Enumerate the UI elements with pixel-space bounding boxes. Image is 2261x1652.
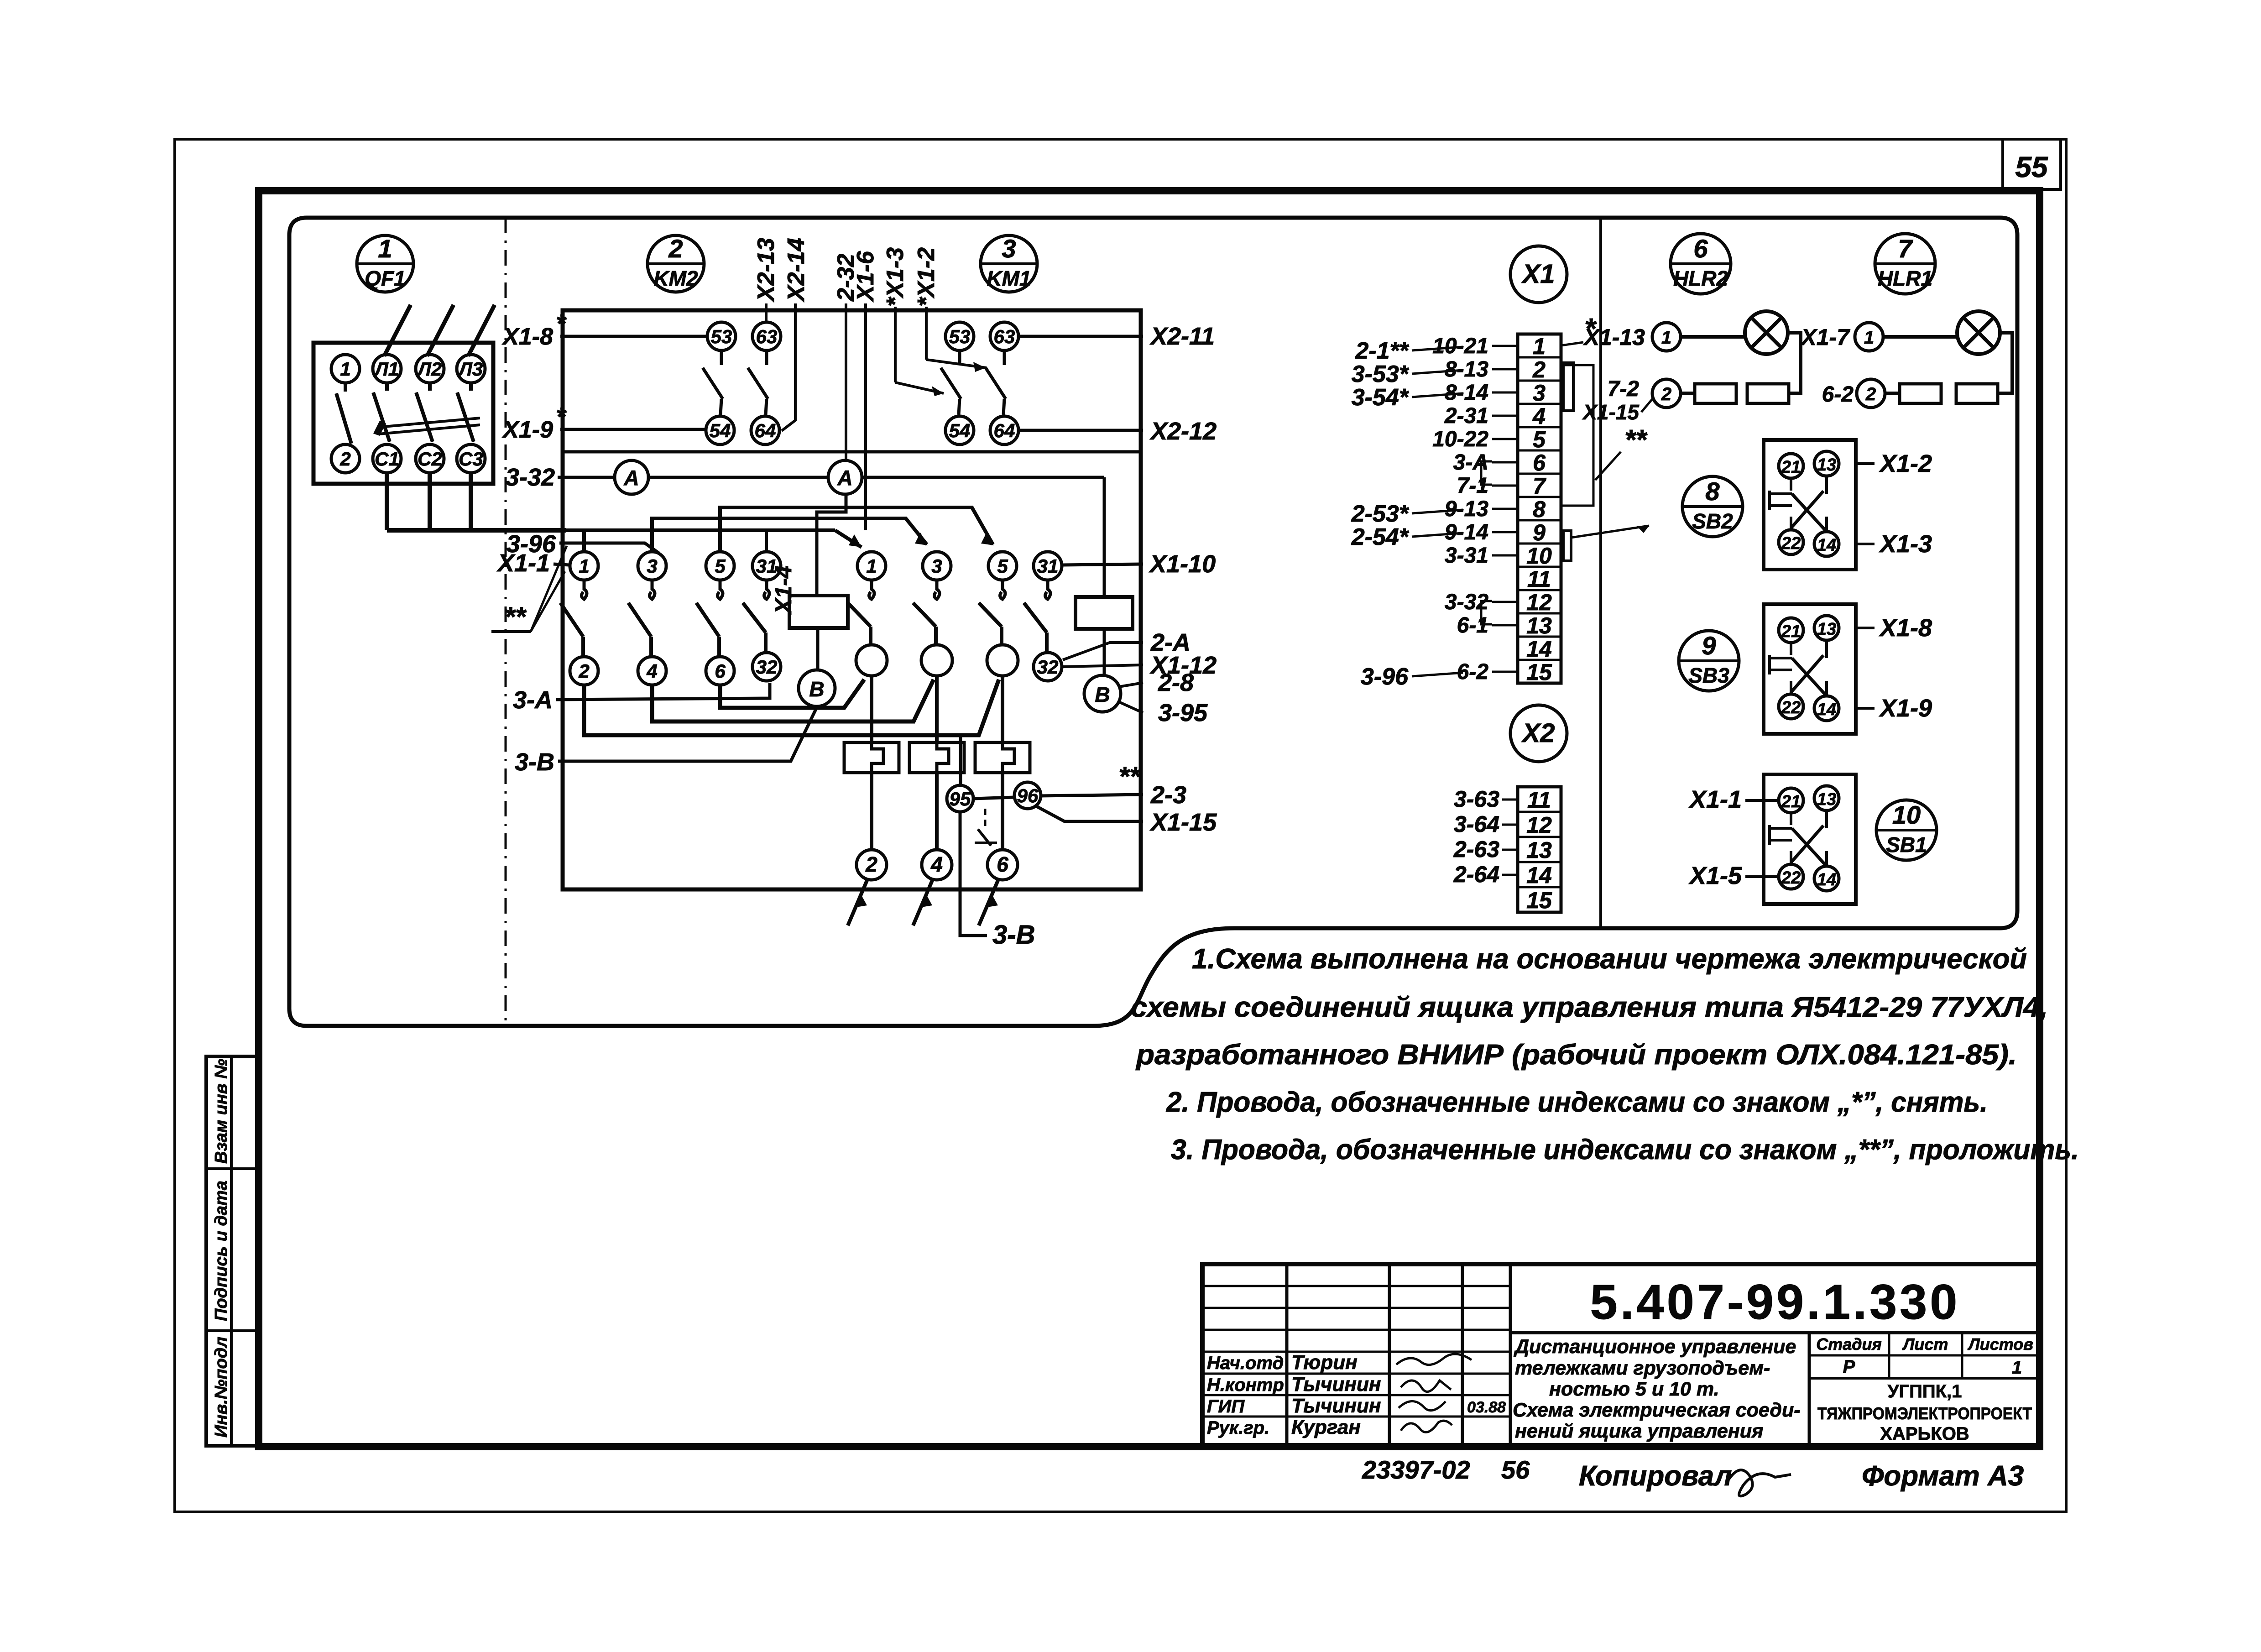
- svg-text:2-31: 2-31: [1444, 404, 1488, 428]
- svg-text:тележками грузоподъем-: тележками грузоподъем-: [1515, 1357, 1770, 1379]
- svg-text:8-13: 8-13: [1445, 357, 1488, 382]
- svg-text:HLR2: HLR2: [1673, 267, 1728, 290]
- svg-text:8: 8: [1533, 497, 1546, 522]
- svg-text:5: 5: [997, 555, 1008, 577]
- svg-text:*: *: [556, 309, 567, 338]
- svg-text:С2: С2: [418, 448, 442, 470]
- svg-text:12: 12: [1526, 812, 1552, 838]
- svg-text:Курган: Курган: [1291, 1416, 1361, 1438]
- svg-text:10: 10: [1526, 543, 1552, 569]
- svg-text:X2-12: X2-12: [1149, 418, 1217, 445]
- svg-text:2: 2: [1532, 357, 1546, 382]
- svg-text:X2-13: X2-13: [753, 238, 779, 303]
- svg-text:Дистанционное управление: Дистанционное управление: [1513, 1336, 1796, 1358]
- svg-text:64: 64: [994, 420, 1015, 441]
- svg-text:X1-4: X1-4: [771, 565, 796, 615]
- svg-text:3-A: 3-A: [513, 686, 553, 714]
- svg-text:1: 1: [1864, 328, 1874, 348]
- svg-text:X1-3: X1-3: [1879, 530, 1932, 558]
- svg-text:KM1: KM1: [987, 267, 1031, 290]
- svg-text:63: 63: [756, 326, 778, 347]
- svg-text:14: 14: [1817, 700, 1836, 719]
- svg-text:14: 14: [1817, 536, 1836, 555]
- svg-text:13: 13: [1526, 837, 1552, 863]
- svg-text:3. Провода, обозначенные индек: 3. Провода, обозначенные индексами со зн…: [1171, 1134, 2079, 1166]
- svg-text:УГППК,1: УГППК,1: [1888, 1381, 1962, 1401]
- svg-text:3-95: 3-95: [1158, 699, 1208, 727]
- svg-text:7: 7: [1898, 234, 1913, 263]
- svg-text:15: 15: [1526, 659, 1552, 685]
- svg-text:53: 53: [949, 326, 971, 347]
- svg-text:54: 54: [949, 420, 971, 441]
- svg-text:ГИП: ГИП: [1207, 1396, 1245, 1417]
- svg-text:Нач.отд: Нач.отд: [1207, 1353, 1284, 1373]
- svg-text:9-13: 9-13: [1445, 497, 1488, 521]
- svg-text:6: 6: [997, 852, 1008, 876]
- svg-text:Формат А3: Формат А3: [1862, 1460, 2024, 1492]
- svg-text:21: 21: [1781, 458, 1801, 477]
- svg-text:3: 3: [931, 555, 942, 577]
- svg-text:10: 10: [1892, 800, 1921, 829]
- svg-text:2-53*: 2-53*: [1351, 501, 1410, 527]
- svg-text:3-B: 3-B: [515, 748, 554, 776]
- svg-text:Копировал: Копировал: [1579, 1460, 1732, 1492]
- svg-text:KM2: KM2: [653, 267, 698, 290]
- svg-text:22: 22: [1781, 868, 1801, 888]
- svg-text:Листов: Листов: [1967, 1335, 2033, 1354]
- svg-text:X1-5: X1-5: [1688, 862, 1742, 889]
- svg-text:5.407-99.1.330: 5.407-99.1.330: [1590, 1274, 1960, 1329]
- svg-text:11: 11: [1527, 566, 1551, 592]
- svg-text:Взам инв №: Взам инв №: [212, 1059, 231, 1164]
- svg-text:Л2: Л2: [417, 358, 442, 380]
- svg-text:*X1-3: *X1-3: [882, 247, 909, 307]
- svg-text:1: 1: [1533, 334, 1546, 359]
- svg-text:55: 55: [2015, 151, 2048, 183]
- svg-text:96: 96: [1017, 785, 1039, 806]
- svg-text:9: 9: [1702, 631, 1716, 660]
- svg-text:X1-13: X1-13: [1583, 324, 1645, 350]
- svg-text:X1-8: X1-8: [1879, 614, 1932, 642]
- svg-text:Тычинин: Тычинин: [1291, 1395, 1381, 1417]
- svg-text:64: 64: [755, 420, 776, 441]
- svg-text:8-14: 8-14: [1445, 381, 1488, 405]
- svg-text:X1-6: X1-6: [852, 251, 879, 303]
- svg-text:X1-10: X1-10: [1149, 550, 1216, 578]
- svg-text:Л3: Л3: [458, 358, 483, 380]
- svg-text:Рук.гр.: Рук.гр.: [1207, 1418, 1269, 1438]
- svg-text:X1-9: X1-9: [501, 417, 553, 443]
- svg-text:3-32: 3-32: [506, 464, 555, 491]
- svg-text:14: 14: [1526, 636, 1552, 662]
- svg-text:2: 2: [1865, 384, 1876, 404]
- svg-text:4: 4: [1532, 403, 1546, 429]
- svg-text:X1-15: X1-15: [1582, 400, 1640, 424]
- svg-text:23397-02: 23397-02: [1362, 1455, 1470, 1484]
- svg-text:15: 15: [1526, 888, 1552, 913]
- svg-text:HLR1: HLR1: [1878, 267, 1932, 290]
- svg-text:2. Провода, обозначенные индек: 2. Провода, обозначенные индексами со зн…: [1166, 1087, 1988, 1118]
- svg-text:X2-14: X2-14: [783, 238, 809, 303]
- svg-text:2-63: 2-63: [1453, 836, 1499, 862]
- svg-text:SB2: SB2: [1692, 509, 1733, 533]
- svg-text:1: 1: [579, 555, 589, 577]
- svg-text:63: 63: [994, 326, 1015, 347]
- svg-text:7-2: 7-2: [1608, 377, 1640, 401]
- svg-text:X1-1: X1-1: [496, 549, 550, 577]
- svg-text:X1-15: X1-15: [1149, 809, 1217, 836]
- svg-text:53: 53: [711, 326, 732, 347]
- svg-text:13: 13: [1817, 620, 1836, 639]
- svg-text:B: B: [809, 677, 824, 701]
- svg-text:1: 1: [1661, 328, 1671, 348]
- svg-text:A: A: [837, 466, 852, 490]
- svg-text:X1-8: X1-8: [501, 324, 553, 350]
- svg-text:Тюрин: Тюрин: [1291, 1351, 1358, 1374]
- svg-text:22: 22: [1781, 534, 1801, 553]
- svg-text:A: A: [623, 466, 639, 490]
- svg-text:3: 3: [647, 555, 657, 577]
- svg-text:Схема электрическая соеди-: Схема электрическая соеди-: [1513, 1399, 1801, 1421]
- svg-text:6: 6: [1693, 234, 1708, 263]
- svg-text:2-8: 2-8: [1158, 669, 1194, 696]
- svg-text:2: 2: [668, 234, 683, 263]
- svg-text:2: 2: [578, 660, 589, 682]
- svg-text:21: 21: [1781, 792, 1801, 811]
- svg-text:X2-11: X2-11: [1149, 323, 1215, 350]
- svg-text:95: 95: [950, 788, 971, 810]
- svg-text:3-31: 3-31: [1445, 544, 1488, 568]
- svg-text:22: 22: [1781, 698, 1801, 717]
- svg-text:схемы соединений ящика управл: схемы соединений ящика управления типа Я…: [1131, 992, 2048, 1023]
- svg-text:32: 32: [756, 656, 778, 678]
- svg-text:32: 32: [1037, 656, 1059, 678]
- svg-text:X1-9: X1-9: [1879, 695, 1932, 722]
- svg-text:SB3: SB3: [1688, 664, 1729, 687]
- svg-text:2-1**: 2-1**: [1355, 338, 1409, 364]
- svg-text:*: *: [556, 402, 567, 431]
- svg-text:**: **: [504, 601, 527, 632]
- svg-text:Р: Р: [1843, 1357, 1855, 1377]
- svg-text:3-64: 3-64: [1454, 811, 1499, 837]
- svg-text:X2: X2: [1521, 718, 1555, 748]
- svg-text:X1-2: X1-2: [1879, 450, 1932, 477]
- svg-text:3: 3: [1002, 234, 1016, 263]
- svg-text:С3: С3: [459, 448, 483, 470]
- svg-text:разработанного ВНИИР (рабочий: разработанного ВНИИР (рабочий проект ОЛХ…: [1135, 1039, 2017, 1071]
- svg-text:**: **: [1118, 761, 1141, 792]
- svg-text:Инв.№подл: Инв.№подл: [212, 1337, 231, 1438]
- svg-text:13: 13: [1817, 455, 1836, 475]
- svg-text:Подпись и дата: Подпись и дата: [212, 1181, 231, 1321]
- svg-text:7: 7: [1533, 473, 1546, 499]
- svg-text:6: 6: [715, 660, 726, 682]
- svg-text:5: 5: [715, 555, 726, 577]
- svg-text:3-63: 3-63: [1454, 786, 1499, 812]
- svg-text:12: 12: [1526, 590, 1552, 615]
- svg-text:X1-1: X1-1: [1688, 786, 1742, 813]
- svg-text:21: 21: [1781, 622, 1801, 641]
- svg-text:56: 56: [1501, 1455, 1530, 1484]
- svg-text:5: 5: [1533, 427, 1546, 452]
- svg-text:31: 31: [1037, 555, 1059, 577]
- svg-text:3-96: 3-96: [1361, 664, 1409, 690]
- svg-text:ТЯЖПРОМЭЛЕКТРОПРОЕКТ: ТЯЖПРОМЭЛЕКТРОПРОЕКТ: [1817, 1404, 2032, 1423]
- svg-text:1.Схема выполнена на основании: 1.Схема выполнена на основании чертежа э…: [1192, 943, 2027, 975]
- svg-text:13: 13: [1526, 613, 1552, 638]
- svg-text:Стадия: Стадия: [1816, 1335, 1881, 1354]
- svg-text:Тычинин: Тычинин: [1291, 1373, 1381, 1396]
- svg-text:1: 1: [378, 234, 392, 263]
- svg-text:2-3: 2-3: [1150, 781, 1186, 809]
- svg-text:4: 4: [930, 852, 943, 876]
- svg-text:X1-7: X1-7: [1800, 324, 1850, 350]
- svg-text:3-B: 3-B: [992, 920, 1035, 950]
- svg-text:11: 11: [1527, 787, 1551, 813]
- svg-text:3-53*: 3-53*: [1352, 361, 1410, 387]
- svg-text:9: 9: [1533, 520, 1546, 545]
- svg-text:Н.контр: Н.контр: [1207, 1375, 1284, 1395]
- svg-text:**: **: [1624, 424, 1648, 456]
- svg-text:ХАРЬКОВ: ХАРЬКОВ: [1880, 1424, 1969, 1444]
- svg-text:3-54*: 3-54*: [1352, 384, 1410, 411]
- svg-text:9-14: 9-14: [1445, 520, 1488, 544]
- svg-text:*X1-2: *X1-2: [913, 247, 940, 307]
- svg-text:1: 1: [340, 358, 350, 380]
- svg-text:X1: X1: [1521, 259, 1555, 289]
- svg-text:2-64: 2-64: [1453, 862, 1499, 887]
- svg-text:2: 2: [865, 852, 877, 876]
- svg-text:14: 14: [1817, 870, 1836, 889]
- svg-text:13: 13: [1817, 790, 1836, 809]
- svg-text:8: 8: [1705, 477, 1720, 506]
- svg-text:2: 2: [1661, 384, 1671, 404]
- svg-text:QF1: QF1: [365, 267, 405, 290]
- svg-text:03.88: 03.88: [1467, 1399, 1506, 1416]
- svg-text:Л1: Л1: [374, 358, 399, 380]
- svg-text:B: B: [1095, 683, 1110, 706]
- svg-text:54: 54: [710, 420, 731, 441]
- svg-text:6-2: 6-2: [1822, 382, 1854, 407]
- svg-text:С1: С1: [375, 448, 399, 470]
- svg-text:2: 2: [339, 448, 350, 470]
- svg-text:1: 1: [2012, 1358, 2022, 1378]
- svg-text:10-22: 10-22: [1432, 427, 1488, 451]
- svg-text:2-54*: 2-54*: [1351, 524, 1410, 550]
- svg-text:SB1: SB1: [1886, 833, 1927, 857]
- svg-text:1: 1: [866, 555, 877, 577]
- svg-text:3: 3: [1533, 380, 1546, 406]
- svg-text:4: 4: [646, 660, 657, 682]
- svg-text:14: 14: [1526, 863, 1552, 888]
- svg-text:6: 6: [1533, 450, 1546, 476]
- svg-text:ностью 5 и 10 т.: ностью 5 и 10 т.: [1549, 1378, 1719, 1400]
- svg-text:нений ящика управления: нений ящика управления: [1515, 1420, 1763, 1442]
- svg-text:Лист: Лист: [1902, 1335, 1948, 1354]
